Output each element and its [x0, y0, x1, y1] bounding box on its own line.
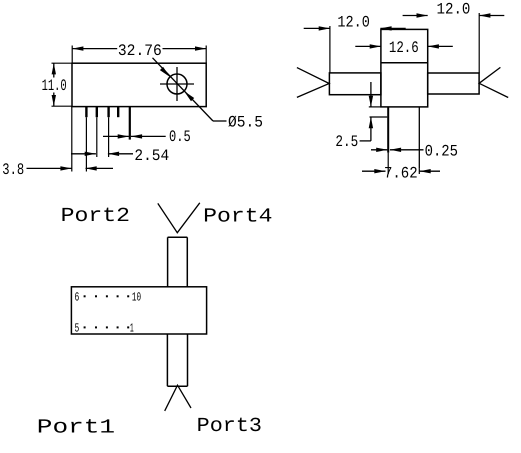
pin 3 stub — [107, 107, 109, 118]
dim 2.5 arrow up — [369, 117, 373, 128]
dim 32.76 extension right — [205, 46, 207, 64]
pin dots row 1 — [84, 295, 130, 328]
dim 11.0 arrow bottom — [52, 95, 56, 106]
svg-text:1: 1 — [130, 321, 134, 335]
dim 12.0 left: line left — [304, 27, 330, 29]
pin 4 stub — [117, 107, 119, 118]
dim 12.0 right: line left — [403, 15, 428, 17]
svg-text:7.62: 7.62 — [384, 165, 418, 183]
dim 0.25 arrow left — [376, 148, 387, 152]
left fiber chevron — [297, 68, 329, 98]
dim 7.62 line left — [362, 170, 386, 172]
dim 11.0 extension bottom — [52, 105, 73, 107]
block internal line — [381, 62, 428, 64]
svg-text:12.0: 12.0 — [337, 14, 369, 32]
dim 32.76 arrow right — [195, 46, 206, 50]
svg-text:Port1: Port1 — [37, 417, 115, 440]
dim 2.5 arrow down — [369, 96, 373, 107]
dim 2.5 leader to text — [360, 140, 371, 142]
dim 11.0 arrow top — [52, 63, 56, 74]
pin 2 stub — [96, 107, 98, 118]
extension line pin2 — [96, 117, 98, 157]
svg-text:10: 10 — [132, 290, 141, 304]
bottom stem right edge — [187, 334, 189, 386]
svg-text:32.76: 32.76 — [118, 42, 162, 60]
dim 32.76 extension left — [71, 46, 73, 64]
svg-text:Port4: Port4 — [203, 206, 272, 229]
extension line pin3 — [108, 117, 110, 157]
pin 5 (long, 0.5 wide) — [129, 107, 131, 140]
hole leader tail — [213, 120, 227, 122]
svg-text:2.54: 2.54 — [134, 147, 169, 165]
svg-text:11.0: 11.0 — [42, 77, 67, 95]
dim 12.0 left: line right — [380, 27, 405, 29]
pin dots row 2 — [84, 326, 86, 328]
svg-text:12.0: 12.0 — [437, 1, 471, 19]
dim 12.0 right: arrow right — [479, 13, 490, 17]
dim 32.76 line right — [163, 48, 207, 50]
top stem left edge — [167, 237, 169, 286]
dim 12.0 left: arrow left — [319, 26, 330, 30]
dim 0.5 arrow right — [131, 134, 142, 138]
right arm tube — [428, 73, 479, 94]
bottom stem cap — [167, 385, 187, 387]
dim 0.5 line right — [131, 135, 166, 137]
dim 0.5 arrow left — [118, 134, 129, 138]
dim 3.8 line left — [27, 167, 72, 169]
dim 12.0 right: extension — [478, 13, 480, 73]
dim 3.8 arrow right — [86, 166, 97, 170]
port 2/4 V marker — [158, 203, 200, 233]
block outline (end view) — [381, 29, 428, 107]
dim 2.5 shaft lower — [370, 117, 372, 141]
svg-text:0.25: 0.25 — [425, 142, 458, 160]
dim 7.62 arrow left — [374, 169, 385, 173]
body outline (side view) — [72, 63, 206, 106]
dim 12.6 arrow left — [370, 44, 381, 48]
dim 2.5 shaft upper — [370, 82, 372, 107]
hole leader arrowhead upper — [160, 67, 170, 77]
left arm tube — [329, 73, 381, 95]
hole leader diagonal — [153, 58, 214, 121]
dim 11.0 line bottom — [53, 93, 55, 107]
dim 32.76 line left — [72, 48, 117, 50]
mounting hole circle — [167, 74, 187, 94]
dim 2.5 extension lower — [370, 116, 388, 118]
svg-text:Port3: Port3 — [197, 415, 262, 438]
dim 0.25 arrow right — [390, 148, 401, 152]
dim 2.5 extension upper (block bottom ext) — [369, 106, 381, 108]
port 1/3 V marker — [165, 385, 191, 411]
svg-text:6: 6 — [75, 290, 80, 304]
right fiber chevron — [479, 67, 508, 97]
dim 12.6 line left — [355, 45, 381, 47]
dim 0.5 line left — [103, 135, 129, 137]
hole leader arrowhead lower — [184, 91, 194, 101]
hole crosshair horizontal — [160, 83, 194, 85]
pin 1 stub — [85, 107, 87, 118]
hole crosshair vertical — [176, 67, 178, 101]
dim 32.76 arrow left — [72, 46, 83, 50]
dim 2.54 line left — [71, 153, 96, 155]
dim 12.6 line right — [428, 45, 453, 47]
dim 12.0 right: line right — [479, 15, 504, 17]
dim 0.25 line right — [390, 149, 424, 151]
dim 7.62 arrow right — [420, 169, 431, 173]
dim 7.62 line right — [420, 170, 441, 172]
dim 2.54 arrow right — [108, 152, 119, 156]
bottom stem left edge — [166, 334, 168, 386]
extension line body left edge — [71, 107, 73, 172]
extension line pin1 — [85, 117, 87, 171]
dim 3.8 line right — [86, 167, 114, 169]
dim 0.25 line left — [371, 149, 387, 151]
svg-text:Port2: Port2 — [61, 205, 130, 228]
dim 2.54 arrow left — [85, 152, 96, 156]
dim 3.8 arrow left — [60, 166, 71, 170]
stem left edge (0.25 pin) — [387, 107, 389, 153]
dim 2.54 line right — [108, 153, 133, 155]
top stem cap — [168, 236, 188, 238]
svg-text:5: 5 — [75, 321, 80, 335]
svg-text:0.5: 0.5 — [169, 128, 191, 146]
dim 12.0 left: arrow right — [380, 26, 391, 30]
svg-text:3.8: 3.8 — [2, 161, 24, 179]
stem right extension — [418, 169, 420, 174]
svg-text:2.5: 2.5 — [335, 133, 358, 151]
svg-text:Ø5.5: Ø5.5 — [228, 113, 263, 131]
body outline (bottom schematic view) — [71, 287, 206, 334]
dim 12.0 right: arrow left — [417, 13, 428, 17]
dim 12.6 arrow right — [428, 44, 439, 48]
dim 12.0 left: extension — [329, 26, 331, 73]
svg-text:12.6: 12.6 — [389, 39, 419, 57]
dim 11.0 line top — [53, 63, 55, 77]
top stem right edge — [186, 237, 188, 286]
dim 11.0 extension top — [52, 62, 73, 64]
stem left extension — [387, 153, 389, 174]
stem right edge — [418, 107, 420, 169]
